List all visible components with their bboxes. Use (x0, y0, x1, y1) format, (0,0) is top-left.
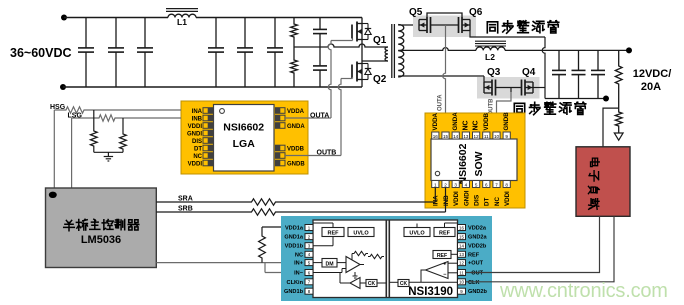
wire Q3Q4 gates (496, 87, 522, 89)
pin 5 left U1 DIS (203, 138, 213, 144)
pin 10 top U2 (493, 132, 500, 139)
resistor load divider lower (615, 108, 622, 133)
wire secondary top lead (398, 24, 419, 26)
svg-text:OUTA: OUTA (310, 113, 329, 120)
inductor L2 (476, 47, 505, 50)
capacitor Cin2 (115, 18, 117, 48)
pin 12 right U3 +OUT (458, 260, 466, 266)
svg-text:2: 2 (444, 182, 447, 187)
svg-text:VDDI: VDDI (188, 161, 203, 167)
svg-text:VDD1a: VDD1a (285, 226, 304, 232)
pin 1 bottom U2 (432, 181, 439, 188)
pin right U1 row6 (276, 145, 286, 151)
svg-text:VDDI: VDDI (453, 191, 460, 206)
svg-text:INA: INA (433, 195, 440, 206)
wire to output ground (542, 37, 545, 99)
node VIN+ (61, 15, 67, 21)
capacitor Cin1 (85, 18, 87, 48)
svg-text:1: 1 (434, 182, 437, 187)
pin 7 left U1 NC (203, 153, 213, 159)
resistor HSG pulldown (90, 110, 97, 152)
ground (107, 152, 109, 156)
svg-text:VDD1b: VDD1b (285, 244, 304, 250)
pin right U1 row3 (276, 123, 286, 129)
svg-text:L1: L1 (177, 17, 187, 27)
svg-text:12VDC/: 12VDC/ (633, 68, 672, 80)
pin 15 right U3 GND2a (458, 234, 466, 240)
capacitor CHB upper (319, 18, 321, 30)
svg-text:16: 16 (433, 134, 439, 139)
wire secondary bottom lead (398, 75, 484, 77)
svg-text:10: 10 (459, 280, 464, 285)
pin 4 left U1 GNDI (203, 130, 213, 136)
svg-text:CLK: CLK (468, 280, 480, 286)
U3 gnd mark (354, 272, 356, 276)
transistor Q5 (418, 20, 420, 31)
svg-text:DIS: DIS (474, 194, 481, 206)
svg-text:NC: NC (295, 252, 303, 258)
U3 internal amp left (346, 257, 360, 273)
wire output + rail (505, 49, 629, 51)
label sync rect top (487, 22, 497, 33)
svg-text:CK: CK (400, 281, 408, 287)
svg-text:GND1b: GND1b (284, 289, 304, 295)
svg-text:IN−: IN− (294, 271, 304, 277)
svg-text:16: 16 (459, 225, 464, 230)
transistor Q6 (469, 20, 471, 31)
U3 internal REF left (322, 228, 344, 237)
svg-text:6: 6 (485, 182, 488, 187)
wire Q1 drain (361, 18, 363, 24)
transistor Q3 (483, 82, 485, 93)
wire in- (264, 263, 266, 273)
pin 9 top U2 (503, 132, 510, 139)
wire Q3 left lead (483, 76, 485, 82)
capacitor Cout3 (597, 50, 599, 70)
pin 1 left U3 VDD1a (305, 225, 313, 231)
svg-text:CK: CK (368, 281, 376, 287)
wire gate drive OUTB to Q3Q4 (497, 92, 512, 133)
wire top input rail (64, 17, 168, 19)
capacitor Cout2 (578, 50, 580, 70)
capacitor Cbulk3 (274, 18, 276, 48)
svg-text:12: 12 (459, 260, 464, 265)
pin 3 left U3 VDD1b (305, 243, 313, 249)
svg-text:20A: 20A (641, 81, 661, 93)
pin 2 left U1 INB (203, 115, 213, 121)
wire load sense + (466, 216, 600, 272)
svg-text:GNDI: GNDI (463, 190, 470, 206)
wire output - rail (545, 98, 606, 100)
pin 8 left U3 GND1b (305, 288, 313, 294)
wire Q5Q6 top bracket (427, 13, 462, 17)
svg-text:Q1: Q1 (373, 35, 387, 46)
wire Q1 gate (331, 40, 353, 42)
svg-text:INB: INB (192, 116, 203, 122)
svg-text:14: 14 (459, 244, 464, 249)
capacitor Cin3 (144, 18, 146, 48)
svg-text:14: 14 (453, 134, 459, 139)
pin 10 right U3 CLK (458, 279, 466, 285)
pin 6 left U3 IN− (305, 270, 313, 276)
capacitor Cout1 (558, 50, 560, 70)
wire cap midpoint to primary (294, 44, 388, 47)
resistor divider upper (291, 18, 298, 48)
transistor Q4 (532, 82, 534, 93)
wire HSG (53, 110, 55, 188)
pin 2 bottom U2 (442, 181, 449, 188)
svg-text:15: 15 (459, 234, 464, 239)
wire SRB (156, 209, 445, 215)
pin 9 right U3 GND2b (458, 288, 466, 294)
svg-text:Q6: Q6 (469, 7, 483, 18)
pin 16 top U2 (432, 132, 439, 139)
svg-text:REF: REF (439, 231, 451, 237)
U3 clock path right (398, 280, 409, 287)
pin 16 right U3 VDD2a (458, 225, 466, 231)
svg-text:Q3: Q3 (487, 67, 501, 78)
wire to electronic load (603, 108, 619, 147)
capacitor CHB lower (319, 47, 321, 66)
svg-text:36~60VDC: 36~60VDC (10, 46, 72, 60)
pin right U1 row1 (276, 108, 286, 114)
pin 6 left U1 DT (203, 145, 213, 151)
pin 7 bottom U2 (493, 181, 500, 188)
half-bridge controller LM5036 (46, 188, 157, 268)
pin 13 right U3 REF (458, 251, 466, 257)
wire Q2 source (361, 80, 363, 88)
svg-text:4: 4 (465, 182, 468, 187)
pin 4 left U3 NC (305, 251, 313, 257)
pin 4 bottom U2 (462, 181, 469, 188)
electronic load box (576, 147, 630, 217)
svg-text:DM: DM (325, 261, 333, 267)
svg-text:NC: NC (462, 120, 469, 130)
svg-text:IN+: IN+ (294, 261, 304, 267)
svg-text:HSG: HSG (50, 104, 66, 111)
U3 clock buffer left (350, 278, 360, 289)
svg-text:OUTA: OUTA (438, 94, 444, 111)
pin 13 top U2 (462, 132, 469, 139)
svg-text:L2: L2 (485, 52, 495, 62)
wire LSG (71, 118, 73, 188)
U3 internal UVLO right (404, 228, 430, 237)
svg-text:12: 12 (474, 134, 480, 139)
svg-text:LM5036: LM5036 (81, 234, 121, 246)
svg-text:GND2a: GND2a (468, 235, 488, 241)
pin 12 top U2 (473, 132, 480, 139)
wire top input rail b (196, 17, 362, 19)
svg-text:UVLO: UVLO (409, 231, 425, 237)
wire center tap rail (398, 48, 476, 51)
svg-text:LGA: LGA (233, 138, 256, 150)
node VIN- (60, 84, 66, 90)
pin right U1 row8 (276, 160, 286, 166)
op-amp U1 NSI6602 LGA body (181, 101, 308, 174)
svg-text:13: 13 (463, 134, 469, 139)
svg-text:INB: INB (443, 195, 450, 206)
svg-text:+: + (443, 262, 446, 268)
svg-text:SRB: SRB (178, 206, 193, 213)
wire FB to isolated amp (156, 262, 305, 264)
svg-text:INA: INA (192, 109, 203, 115)
svg-text:GNDA: GNDA (452, 112, 459, 131)
pin 3 left U1 VDDI (203, 123, 213, 129)
sync rect block Q3Q4 background (477, 77, 540, 99)
svg-text:VDDA: VDDA (287, 109, 305, 115)
resistor load divider upper (615, 50, 622, 108)
svg-text:−: − (443, 272, 446, 278)
svg-text:GND1a: GND1a (284, 235, 304, 241)
wire load sense - (466, 216, 615, 281)
sync rect block Q5Q6 background (413, 16, 476, 38)
svg-text:UVLO: UVLO (353, 231, 369, 237)
wire SRA (156, 199, 435, 205)
node VOUT- (603, 96, 609, 102)
svg-text:NSI3190: NSI3190 (408, 286, 453, 298)
transformer core (391, 24, 393, 78)
svg-text:VDD2a: VDD2a (468, 226, 487, 232)
svg-text:5: 5 (475, 182, 478, 187)
inductor L1 (168, 14, 196, 17)
svg-text:www.cntronics.com: www.cntronics.com (499, 280, 668, 302)
svg-text:VDDB: VDDB (287, 146, 305, 152)
svg-text:10: 10 (494, 134, 500, 139)
wire bottom input rail (63, 86, 362, 88)
svg-text:SRA: SRA (178, 196, 193, 203)
pin right U1 row2 (276, 115, 286, 121)
svg-text:NC: NC (193, 154, 202, 160)
svg-text:VDDI: VDDI (504, 191, 511, 206)
svg-text:VDDI: VDDI (188, 124, 203, 130)
pin right U1 row7 (276, 153, 286, 159)
svg-text:DT: DT (194, 146, 202, 152)
wire switch node to primary (362, 60, 388, 62)
svg-text:11: 11 (459, 270, 464, 275)
svg-text:REF: REF (328, 231, 340, 237)
svg-text:GNDB: GNDB (287, 161, 305, 167)
U3 internal modulator (322, 259, 337, 268)
svg-text:Q5: Q5 (409, 7, 423, 18)
capacitor Cbulk1 (215, 18, 217, 48)
svg-text:GNDI: GNDI (187, 131, 202, 137)
op-amp U2 NSI6602 SOW body (425, 113, 525, 208)
U3 internal REF2 (433, 251, 451, 259)
svg-text:+OUT: +OUT (468, 261, 484, 267)
resistor LSG pulldown (120, 118, 127, 152)
svg-text:NSI6602: NSI6602 (223, 122, 264, 134)
svg-text:DT: DT (484, 198, 491, 206)
pin 15 top U2 (442, 132, 449, 139)
pin 5 left U3 IN+ (305, 260, 313, 266)
U3 internal REF right (434, 228, 455, 237)
svg-text:GNDA: GNDA (287, 124, 305, 130)
wire Q5Q6 right lead (470, 31, 545, 38)
svg-text:OUTB: OUTB (317, 150, 337, 157)
svg-text:9: 9 (505, 134, 508, 139)
pin 11 top U2 (483, 132, 490, 139)
svg-text:−OUT: −OUT (468, 271, 484, 277)
svg-text:3: 3 (454, 182, 457, 187)
svg-text:13: 13 (459, 252, 464, 257)
pin 6 bottom U2 (483, 181, 490, 188)
svg-text:DIS: DIS (192, 139, 202, 145)
pin 14 top U2 (452, 132, 459, 139)
pin 8 left U1 VDDI (203, 160, 213, 166)
transformer secondary winding (398, 25, 404, 78)
U3 internal UVLO left (348, 228, 374, 237)
transistor Q2 (351, 65, 353, 79)
svg-text:NC: NC (473, 120, 480, 130)
svg-text:7: 7 (495, 182, 498, 187)
wire Q5Q6 gates (431, 24, 459, 26)
svg-text:Q2: Q2 (373, 74, 387, 85)
U3 internal amp right (426, 262, 449, 279)
svg-text:CLKin: CLKin (287, 280, 304, 286)
resistor bias (262, 226, 305, 228)
label sync rect bottom (514, 103, 524, 114)
wire Q2 gate (341, 78, 353, 80)
svg-text:GNDB: GNDB (503, 112, 510, 131)
svg-text:REF: REF (468, 252, 480, 258)
svg-text:11: 11 (484, 134, 489, 139)
arrow to load (614, 133, 623, 140)
isolation barrier (385, 220, 387, 298)
resistor divider lower (291, 47, 298, 87)
svg-text:8: 8 (505, 182, 508, 187)
pin 2 left U3 GND1a (305, 234, 313, 240)
svg-text:NSI6602: NSI6602 (457, 143, 469, 184)
wire gnd bus (94, 151, 123, 153)
svg-text:GND2b: GND2b (468, 289, 488, 295)
svg-text:REF: REF (437, 253, 447, 259)
pin 14 right U3 VDD2b (458, 243, 466, 249)
svg-text:VDDB: VDDB (483, 112, 490, 130)
svg-text:VDD2b: VDD2b (468, 244, 487, 250)
pin 11 right U3 −OUT (458, 270, 466, 276)
pin 5 bottom U2 (473, 181, 480, 188)
isolated amp U3 NSI3190 background (281, 216, 492, 301)
wire OUTA from U1 (285, 117, 331, 119)
wire switch node (361, 40, 363, 64)
pin 7 left U3 CLKin (305, 279, 313, 285)
svg-text:15: 15 (443, 134, 449, 139)
svg-text:NC: NC (494, 197, 501, 206)
capacitor Cbulk2 (244, 18, 246, 48)
wire Q4 right lead (533, 87, 545, 89)
wire gate drive OUTA to Q5Q6 (443, 25, 446, 133)
pin 1 left U1 INA (203, 108, 213, 114)
svg-text:Q4: Q4 (522, 67, 536, 78)
node VOUT+ (626, 47, 632, 53)
transformer primary winding (385, 47, 388, 61)
pin 3 bottom U2 (452, 181, 459, 188)
transistor Q1 (351, 25, 353, 39)
pin 8 bottom U2 (503, 181, 510, 188)
wire OUTB from U1 (285, 155, 341, 157)
svg-text:SOW: SOW (473, 151, 485, 176)
svg-text:LSG: LSG (68, 113, 83, 120)
svg-text:VDDA: VDDA (432, 112, 439, 130)
